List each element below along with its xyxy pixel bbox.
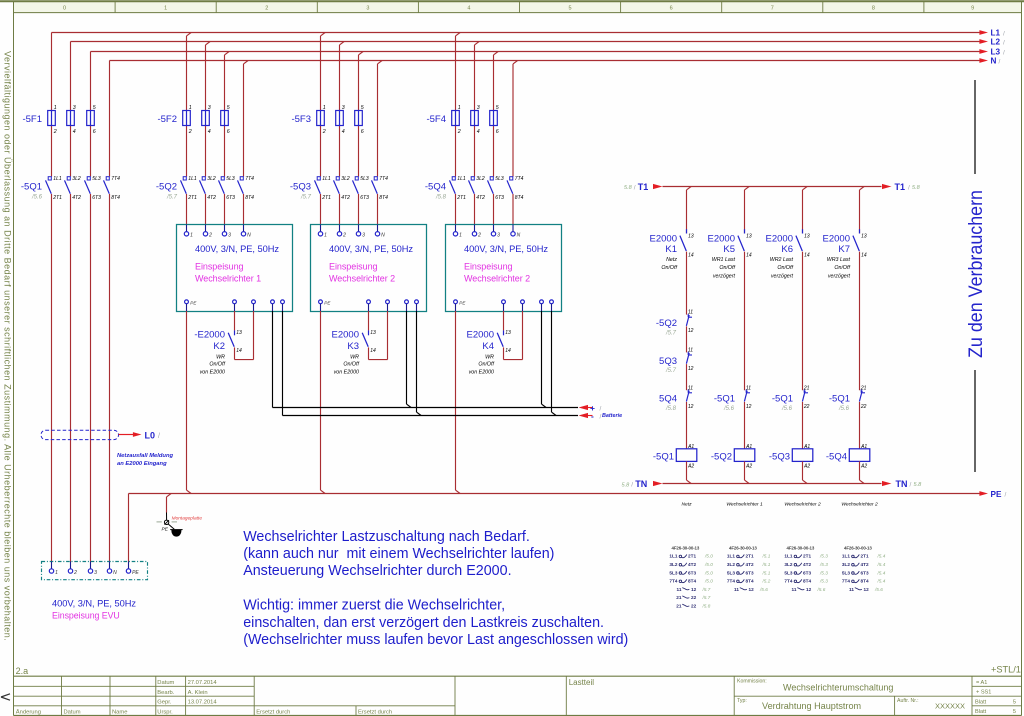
svg-text:12: 12 <box>688 404 694 410</box>
svg-text:5.8: 5.8 <box>914 482 923 488</box>
svg-text:3L2: 3L2 <box>341 176 350 182</box>
svg-text:21: 21 <box>676 604 682 609</box>
svg-text:On/Off: On/Off <box>478 362 494 368</box>
svg-text:N: N <box>247 233 251 239</box>
svg-text:5: 5 <box>1013 699 1016 705</box>
svg-text:2T1: 2T1 <box>861 554 869 559</box>
svg-text:5L3: 5L3 <box>92 176 101 182</box>
svg-text:1L1: 1L1 <box>188 176 197 182</box>
svg-text:4F26-30-00-13: 4F26-30-00-13 <box>729 545 757 550</box>
svg-text:/5.7: /5.7 <box>166 194 178 200</box>
svg-text:/5.6: /5.6 <box>31 194 43 200</box>
svg-text:6T3: 6T3 <box>688 570 696 575</box>
svg-text:K3: K3 <box>347 341 359 352</box>
svg-text:/: / <box>999 59 1001 66</box>
svg-text:PE: PE <box>162 527 169 533</box>
svg-text:6T3: 6T3 <box>226 195 235 201</box>
svg-text:1: 1 <box>459 233 462 239</box>
svg-text:A2: A2 <box>860 463 867 469</box>
svg-text:Einspeisung: Einspeisung <box>464 261 513 271</box>
svg-text:2: 2 <box>477 233 481 239</box>
svg-text:14: 14 <box>746 253 752 259</box>
svg-text:Netz: Netz <box>681 502 692 508</box>
svg-text:5: 5 <box>569 6 572 12</box>
svg-text:5.8: 5.8 <box>622 482 631 488</box>
svg-text:6T3: 6T3 <box>861 570 869 575</box>
svg-text:13: 13 <box>861 233 867 239</box>
svg-text:8T4: 8T4 <box>111 195 120 201</box>
svg-text:2: 2 <box>322 129 326 135</box>
svg-text:-5F1: -5F1 <box>22 114 42 125</box>
svg-text:Wechselrichter 2: Wechselrichter 2 <box>464 273 530 283</box>
svg-text:/5.8: /5.8 <box>665 406 677 412</box>
svg-text:/: / <box>1003 40 1005 47</box>
svg-text:-E2000: -E2000 <box>194 330 225 341</box>
svg-text:Zu den Verbrauchern: Zu den Verbrauchern <box>965 190 987 358</box>
svg-text:PE: PE <box>991 490 1002 499</box>
svg-text:11: 11 <box>746 385 751 391</box>
svg-text:3: 3 <box>228 233 231 239</box>
svg-text:verzögert: verzögert <box>828 273 851 279</box>
svg-text:21: 21 <box>676 595 682 600</box>
svg-text:/5.7: /5.7 <box>665 368 677 374</box>
svg-text:Ersetzt durch: Ersetzt durch <box>256 709 290 715</box>
svg-text:E2000: E2000 <box>332 330 359 341</box>
svg-text:7: 7 <box>771 6 774 12</box>
svg-text:2: 2 <box>53 129 57 135</box>
svg-text:5L3: 5L3 <box>495 176 504 182</box>
svg-text:/5.3: /5.3 <box>819 562 828 567</box>
svg-text:/5.0: /5.0 <box>704 554 713 559</box>
svg-text:4T2: 4T2 <box>207 195 216 201</box>
svg-text:7T4: 7T4 <box>727 579 735 584</box>
svg-text:3: 3 <box>94 570 97 576</box>
svg-text:3: 3 <box>497 233 500 239</box>
svg-text:14: 14 <box>236 348 242 354</box>
svg-text:(Wechselrichter muss laufen be: (Wechselrichter muss laufen bevor Last a… <box>243 632 628 648</box>
svg-text:-5Q3: -5Q3 <box>290 181 311 192</box>
svg-text:WR3 Last: WR3 Last <box>827 257 851 263</box>
svg-text:Datum: Datum <box>157 680 174 686</box>
svg-text:5: 5 <box>93 105 96 111</box>
svg-text:-5Q1: -5Q1 <box>829 394 850 405</box>
svg-text:/5.1: /5.1 <box>762 554 771 559</box>
svg-text:4F26-30-00-13: 4F26-30-00-13 <box>672 545 700 550</box>
svg-text:/5.6: /5.6 <box>838 406 850 412</box>
svg-text:3: 3 <box>362 233 365 239</box>
svg-text:Wechselrichterumschaltung: Wechselrichterumschaltung <box>783 682 893 692</box>
svg-text:Netzausfall Meldung: Netzausfall Meldung <box>117 453 174 459</box>
svg-text:5L3: 5L3 <box>784 570 792 575</box>
svg-text:-5Q2: -5Q2 <box>656 318 677 329</box>
svg-text:E2000: E2000 <box>708 234 735 245</box>
svg-text:400V, 3/N, PE, 50Hz: 400V, 3/N, PE, 50Hz <box>464 244 548 254</box>
svg-text:12: 12 <box>691 587 697 592</box>
svg-text:2T1: 2T1 <box>187 195 197 201</box>
svg-text:6: 6 <box>670 6 673 12</box>
svg-text:13: 13 <box>505 330 511 336</box>
svg-text:Netz: Netz <box>666 257 677 263</box>
svg-text:einschalten, dan erst verzöger: einschalten, dan erst verzögert den Last… <box>243 615 604 631</box>
svg-text:N: N <box>517 233 521 239</box>
svg-text:Änderung: Änderung <box>16 708 41 715</box>
svg-text:11: 11 <box>849 587 854 592</box>
svg-text:K1: K1 <box>665 244 677 255</box>
svg-text:WR: WR <box>485 354 494 360</box>
svg-text:/: / <box>600 405 602 412</box>
svg-text:N: N <box>991 57 997 66</box>
svg-text:11: 11 <box>734 587 739 592</box>
svg-text:14: 14 <box>505 348 511 354</box>
svg-text:4: 4 <box>342 129 345 135</box>
svg-text:E2000: E2000 <box>467 330 494 341</box>
svg-text:Wechselrichter 2: Wechselrichter 2 <box>329 273 395 283</box>
svg-text:WR2 Last: WR2 Last <box>770 257 794 263</box>
svg-text:4T2: 4T2 <box>72 195 81 201</box>
svg-text:/5.0: /5.0 <box>704 570 713 575</box>
svg-text:E2000: E2000 <box>766 234 793 245</box>
svg-text:/5.6: /5.6 <box>874 587 883 592</box>
svg-text:N: N <box>381 233 385 239</box>
svg-text:12: 12 <box>688 328 694 334</box>
svg-text:-5Q2: -5Q2 <box>711 452 732 463</box>
svg-text:/: / <box>908 184 910 191</box>
svg-text:4: 4 <box>467 6 470 12</box>
svg-text:1: 1 <box>323 105 326 111</box>
svg-text:K5: K5 <box>723 244 735 255</box>
svg-text:14: 14 <box>688 253 694 259</box>
svg-text:A2: A2 <box>745 463 752 469</box>
svg-text:A1: A1 <box>687 444 694 450</box>
svg-text:4: 4 <box>477 129 480 135</box>
svg-text:K2: K2 <box>213 341 225 352</box>
svg-text:3L2: 3L2 <box>476 176 485 182</box>
svg-text:0: 0 <box>63 6 66 12</box>
svg-text:3: 3 <box>208 105 211 111</box>
svg-text:12: 12 <box>864 587 870 592</box>
svg-text:/5.8: /5.8 <box>702 604 711 609</box>
svg-text:400V, 3/N, PE, 50Hz: 400V, 3/N, PE, 50Hz <box>52 599 136 609</box>
svg-text:5.8: 5.8 <box>624 185 633 191</box>
svg-text:Blatt: Blatt <box>975 699 987 705</box>
svg-text:-5F4: -5F4 <box>426 114 446 125</box>
svg-text:/5.1: /5.1 <box>762 562 771 567</box>
svg-text:2T1: 2T1 <box>456 195 466 201</box>
svg-text:3L2: 3L2 <box>842 562 850 567</box>
svg-text:5: 5 <box>496 105 499 111</box>
svg-text:6T3: 6T3 <box>360 195 369 201</box>
svg-text:+ SS1: + SS1 <box>976 690 991 696</box>
svg-text:PE: PE <box>324 301 331 306</box>
svg-text:E2000: E2000 <box>823 234 850 245</box>
svg-text:1: 1 <box>324 233 327 239</box>
svg-text:= A1: = A1 <box>976 680 987 686</box>
svg-text:12: 12 <box>749 587 755 592</box>
svg-text:22: 22 <box>691 595 697 600</box>
svg-text:21: 21 <box>803 385 810 391</box>
svg-text:/5.6: /5.6 <box>781 406 793 412</box>
svg-text:3L2: 3L2 <box>72 176 81 182</box>
svg-text:21: 21 <box>860 385 867 391</box>
svg-text:5.8: 5.8 <box>912 185 921 191</box>
svg-text:1L1: 1L1 <box>322 176 331 182</box>
svg-text:6T3: 6T3 <box>746 570 754 575</box>
svg-text:Wechselrichter 2: Wechselrichter 2 <box>841 502 878 508</box>
svg-text:12: 12 <box>806 587 812 592</box>
svg-text:K6: K6 <box>781 244 793 255</box>
svg-text:27.07.2014: 27.07.2014 <box>188 680 218 686</box>
svg-text:8T4: 8T4 <box>245 195 254 201</box>
svg-text:8T4: 8T4 <box>861 579 869 584</box>
svg-text:/5.7: /5.7 <box>702 595 711 600</box>
svg-text:5: 5 <box>227 105 230 111</box>
svg-text:7T4: 7T4 <box>784 579 792 584</box>
svg-text:Verdrahtung Hauptstrom: Verdrahtung Hauptstrom <box>762 701 861 711</box>
svg-text:1: 1 <box>54 105 57 111</box>
svg-text:von E2000: von E2000 <box>334 370 359 376</box>
svg-text:/: / <box>631 482 633 489</box>
svg-text:7T4: 7T4 <box>669 579 677 584</box>
svg-text:-5Q4: -5Q4 <box>425 181 446 192</box>
svg-text:4: 4 <box>208 129 211 135</box>
svg-text:5: 5 <box>1013 709 1016 715</box>
svg-text:4T2: 4T2 <box>746 562 754 567</box>
svg-text:-5Q2: -5Q2 <box>156 181 177 192</box>
svg-text:1L1: 1L1 <box>784 554 792 559</box>
svg-text:-5Q1: -5Q1 <box>772 394 793 405</box>
svg-text:5L3: 5L3 <box>842 570 850 575</box>
svg-text:/: / <box>910 482 912 489</box>
svg-text:2: 2 <box>457 129 461 135</box>
svg-text:8: 8 <box>872 6 875 12</box>
svg-text:1: 1 <box>458 105 461 111</box>
svg-text:1L1: 1L1 <box>53 176 62 182</box>
svg-text:1: 1 <box>190 233 193 239</box>
svg-text:2: 2 <box>73 570 77 576</box>
svg-text:Datum: Datum <box>64 709 81 715</box>
svg-text:22: 22 <box>860 404 867 410</box>
svg-text:On/Off: On/Off <box>343 362 359 368</box>
svg-text:4F26-30-00-13: 4F26-30-00-13 <box>787 545 815 550</box>
svg-text:13: 13 <box>236 330 242 336</box>
svg-text:6T3: 6T3 <box>803 570 811 575</box>
svg-text:1L1: 1L1 <box>669 554 677 559</box>
svg-text:/5.4: /5.4 <box>877 562 886 567</box>
svg-text:Bearb.: Bearb. <box>157 690 174 696</box>
svg-text:4T2: 4T2 <box>476 195 485 201</box>
svg-text:2T1: 2T1 <box>803 554 811 559</box>
svg-text:400V, 3/N, PE, 50Hz: 400V, 3/N, PE, 50Hz <box>329 244 413 254</box>
svg-text:2T1: 2T1 <box>746 554 754 559</box>
svg-text:/5.1: /5.1 <box>762 570 771 575</box>
svg-text:2T1: 2T1 <box>321 195 331 201</box>
svg-text:WR1 Last: WR1 Last <box>712 257 736 263</box>
svg-text:7T4: 7T4 <box>111 176 120 182</box>
svg-text:Name: Name <box>112 709 127 715</box>
svg-text:Gepr.: Gepr. <box>157 700 172 706</box>
svg-text:11: 11 <box>688 348 693 354</box>
svg-text:2T1: 2T1 <box>52 195 62 201</box>
svg-text:22: 22 <box>803 404 810 410</box>
svg-text:5L3: 5L3 <box>669 570 677 575</box>
svg-text:/: / <box>634 184 636 191</box>
svg-text:1L1: 1L1 <box>842 554 850 559</box>
svg-text:/: / <box>1005 491 1007 498</box>
svg-text:/: / <box>1003 50 1005 57</box>
svg-text:/: / <box>1003 31 1005 38</box>
svg-text:Ersetzt durch: Ersetzt durch <box>358 709 392 715</box>
svg-text:/5.3: /5.3 <box>819 570 828 575</box>
svg-text:Wichtig: immer zuerst die Wech: Wichtig: immer zuerst die Wechselrichter… <box>243 598 505 614</box>
svg-text:1L1: 1L1 <box>727 554 735 559</box>
svg-text:11: 11 <box>688 385 693 391</box>
svg-text:5L3: 5L3 <box>226 176 235 182</box>
svg-text:E2000: E2000 <box>650 234 677 245</box>
svg-text:13: 13 <box>370 330 376 336</box>
svg-text:Einspeisung: Einspeisung <box>195 261 244 271</box>
svg-text:3L2: 3L2 <box>784 562 792 567</box>
svg-text:/5.3: /5.3 <box>819 579 828 584</box>
svg-text:Lastteil: Lastteil <box>569 678 595 687</box>
svg-text:/5.4: /5.4 <box>877 579 886 584</box>
svg-text:von E2000: von E2000 <box>469 370 494 376</box>
svg-text:8T4: 8T4 <box>379 195 388 201</box>
svg-text:-5Q4: -5Q4 <box>826 452 847 463</box>
svg-text:WR: WR <box>216 354 225 360</box>
svg-text:/5.8: /5.8 <box>435 194 447 200</box>
svg-text:8T4: 8T4 <box>688 579 696 584</box>
svg-text:On/Off: On/Off <box>834 265 850 271</box>
svg-text:-5Q1: -5Q1 <box>653 452 674 463</box>
svg-text:8T4: 8T4 <box>515 195 524 201</box>
svg-text:4: 4 <box>73 129 76 135</box>
svg-text:Wechselrichter 1: Wechselrichter 1 <box>726 502 763 508</box>
svg-text:13: 13 <box>688 233 694 239</box>
svg-text:4F26-30-00-13: 4F26-30-00-13 <box>844 545 872 550</box>
svg-text:14: 14 <box>804 253 810 259</box>
svg-text:L2: L2 <box>991 38 1001 47</box>
svg-text:5L3: 5L3 <box>727 570 735 575</box>
svg-text:K4: K4 <box>482 341 494 352</box>
svg-text:von E2000: von E2000 <box>200 370 225 376</box>
svg-text:13.07.2014: 13.07.2014 <box>188 700 218 706</box>
svg-text:13: 13 <box>746 233 752 239</box>
svg-text:7T4: 7T4 <box>515 176 524 182</box>
svg-text:11: 11 <box>792 587 797 592</box>
svg-text:A1: A1 <box>860 444 867 450</box>
svg-text:Einspeisung EVU: Einspeisung EVU <box>52 610 120 620</box>
svg-text:13: 13 <box>804 233 810 239</box>
svg-text:/5.7: /5.7 <box>300 194 312 200</box>
svg-text:6: 6 <box>93 129 96 135</box>
svg-text:On/Off: On/Off <box>661 265 677 271</box>
svg-text:PE: PE <box>132 570 139 576</box>
svg-text:A2: A2 <box>803 463 810 469</box>
svg-text:3L2: 3L2 <box>207 176 216 182</box>
svg-text:-5F2: -5F2 <box>157 114 177 125</box>
svg-text:-5F3: -5F3 <box>291 114 311 125</box>
svg-text:3: 3 <box>477 105 480 111</box>
svg-text:Typ:: Typ: <box>737 698 747 704</box>
svg-text:6: 6 <box>227 129 230 135</box>
svg-text:1: 1 <box>164 6 167 12</box>
svg-text:1L1: 1L1 <box>457 176 466 182</box>
svg-text:Kommission:: Kommission: <box>737 678 767 684</box>
svg-text:3L2: 3L2 <box>727 562 735 567</box>
svg-text:14: 14 <box>370 348 376 354</box>
svg-text:Wechselrichter 2: Wechselrichter 2 <box>784 502 821 508</box>
svg-text:6: 6 <box>361 129 364 135</box>
svg-text:T1: T1 <box>638 182 649 192</box>
svg-text:5L3: 5L3 <box>360 176 369 182</box>
svg-text:L1: L1 <box>991 29 1001 38</box>
svg-text:14: 14 <box>861 253 867 259</box>
svg-text:7T4: 7T4 <box>245 176 254 182</box>
svg-text:(kann auch nur mit einem Wech: (kann auch nur mit einem Wechselrichter … <box>243 546 554 562</box>
svg-text:Blatt: Blatt <box>975 709 987 715</box>
svg-text:3: 3 <box>366 6 369 12</box>
svg-text:A. Klein: A. Klein <box>188 690 208 696</box>
svg-text:A1: A1 <box>803 444 810 450</box>
svg-text:2: 2 <box>208 233 212 239</box>
svg-text:6: 6 <box>496 129 499 135</box>
svg-text:L3: L3 <box>991 48 1001 57</box>
svg-text:3: 3 <box>73 105 76 111</box>
svg-text:Urspr.: Urspr. <box>157 709 173 715</box>
svg-text:8T4: 8T4 <box>746 579 754 584</box>
svg-text:/5.0: /5.0 <box>704 562 713 567</box>
svg-text:verzögert: verzögert <box>771 273 794 279</box>
svg-text:6T3: 6T3 <box>495 195 504 201</box>
svg-text:/5.6: /5.6 <box>817 587 826 592</box>
svg-text:Montageplatte: Montageplatte <box>172 515 203 521</box>
svg-text:/5.3: /5.3 <box>819 554 828 559</box>
svg-text:2: 2 <box>342 233 346 239</box>
svg-text:-5Q1: -5Q1 <box>714 394 735 405</box>
svg-text:/5.0: /5.0 <box>704 579 713 584</box>
svg-text:PE: PE <box>459 301 466 306</box>
svg-text:A2: A2 <box>687 463 694 469</box>
svg-text:9: 9 <box>971 6 974 12</box>
svg-text:On/Off: On/Off <box>209 362 225 368</box>
svg-text:7T4: 7T4 <box>379 176 388 182</box>
svg-text:3: 3 <box>342 105 345 111</box>
svg-text:8T4: 8T4 <box>803 579 811 584</box>
svg-text:11: 11 <box>677 587 682 592</box>
svg-text:/5.6: /5.6 <box>723 406 735 412</box>
svg-text:400V, 3/N, PE, 50Hz: 400V, 3/N, PE, 50Hz <box>195 244 279 254</box>
svg-text:TN: TN <box>635 479 647 489</box>
svg-text:K7: K7 <box>838 244 850 255</box>
svg-text:22: 22 <box>691 604 697 609</box>
svg-text:/5.2: /5.2 <box>762 579 771 584</box>
svg-text:PE: PE <box>190 301 197 306</box>
svg-text:1: 1 <box>55 570 58 576</box>
svg-text:T1: T1 <box>895 182 906 192</box>
svg-text:/: / <box>158 433 160 440</box>
svg-text:2: 2 <box>188 129 192 135</box>
svg-text:1: 1 <box>189 105 192 111</box>
svg-text:/5.6: /5.6 <box>759 587 768 592</box>
svg-text:/5.7: /5.7 <box>702 587 711 592</box>
svg-text:/5.4: /5.4 <box>877 570 886 575</box>
svg-text:Vervielfältigungen oder Überla: Vervielfältigungen oder Überlassung an D… <box>3 51 13 641</box>
svg-text:an E2000 Eingang: an E2000 Eingang <box>117 461 167 467</box>
svg-text:4T2: 4T2 <box>688 562 696 567</box>
svg-text:5Q4: 5Q4 <box>659 394 677 405</box>
svg-text:XXXXXX: XXXXXX <box>935 701 965 710</box>
svg-text:2: 2 <box>265 6 268 12</box>
